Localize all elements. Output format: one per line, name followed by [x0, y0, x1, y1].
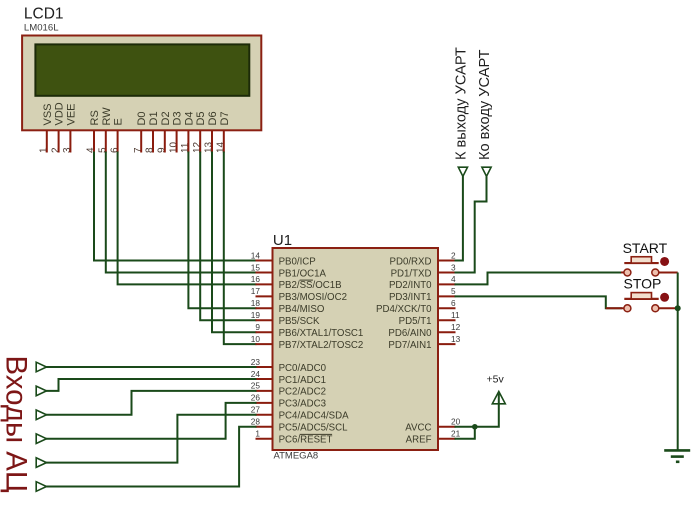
svg-text:16: 16 [251, 274, 261, 284]
svg-text:AVCC: AVCC [405, 423, 431, 434]
svg-text:PD7/AIN1: PD7/AIN1 [388, 340, 431, 351]
svg-text:11: 11 [180, 142, 191, 153]
svg-text:D5: D5 [195, 111, 207, 125]
svg-text:3: 3 [451, 262, 456, 272]
svg-text:4: 4 [86, 147, 97, 153]
svg-text:25: 25 [251, 381, 261, 391]
svg-text:10: 10 [251, 334, 261, 344]
svg-text:D7: D7 [219, 111, 231, 125]
svg-text:21: 21 [451, 429, 461, 439]
svg-text:VSS: VSS [42, 103, 54, 125]
svg-text:PC5/ADC5/SCL: PC5/ADC5/SCL [279, 423, 349, 434]
svg-text:PC0/ADC0: PC0/ADC0 [279, 363, 327, 374]
svg-text:5: 5 [98, 147, 109, 153]
svg-text:D1: D1 [148, 111, 160, 125]
svg-text:Ко входу УСАРТ: Ко входу УСАРТ [477, 49, 493, 160]
svg-text:RW: RW [101, 107, 113, 126]
svg-text:5: 5 [451, 286, 456, 296]
svg-text:27: 27 [251, 405, 261, 415]
svg-text:3: 3 [62, 147, 73, 153]
svg-text:+5v: +5v [487, 373, 505, 385]
svg-text:2: 2 [50, 147, 61, 153]
svg-text:26: 26 [251, 393, 261, 403]
svg-text:8: 8 [145, 147, 156, 153]
svg-text:PC1/ADC1: PC1/ADC1 [279, 375, 326, 386]
svg-text:PB4/MISO: PB4/MISO [279, 304, 325, 315]
svg-text:STOP: STOP [624, 276, 662, 292]
svg-text:18: 18 [251, 298, 261, 308]
svg-text:6: 6 [451, 298, 456, 308]
svg-text:PC6/RESET: PC6/RESET [279, 435, 333, 446]
svg-text:PD4/XCK/T0: PD4/XCK/T0 [376, 304, 432, 315]
svg-text:1: 1 [39, 147, 50, 153]
svg-text:Входы АЦ: Входы АЦ [0, 356, 32, 493]
svg-text:14: 14 [251, 250, 261, 260]
svg-text:U1: U1 [273, 232, 292, 249]
svg-text:RS: RS [89, 110, 101, 125]
svg-text:D2: D2 [160, 111, 172, 125]
svg-text:LCD1: LCD1 [24, 6, 64, 23]
svg-text:19: 19 [251, 310, 261, 320]
svg-text:PC4/ADC4/SDA: PC4/ADC4/SDA [279, 411, 350, 422]
svg-text:PB7/XTAL2/TOSC2: PB7/XTAL2/TOSC2 [279, 340, 364, 351]
svg-text:12: 12 [192, 141, 203, 153]
svg-text:PD3/INT1: PD3/INT1 [389, 292, 432, 303]
svg-text:28: 28 [251, 417, 261, 427]
svg-text:ATMEGA8: ATMEGA8 [274, 450, 319, 461]
svg-text:4: 4 [451, 274, 456, 284]
svg-text:PB5/SCK: PB5/SCK [279, 316, 320, 327]
svg-text:6: 6 [109, 147, 120, 153]
svg-text:10: 10 [168, 141, 179, 153]
svg-text:9: 9 [255, 322, 260, 332]
svg-text:13: 13 [204, 141, 215, 153]
svg-text:D6: D6 [207, 111, 219, 125]
svg-text:VEE: VEE [65, 103, 77, 125]
svg-text:PB6/XTAL1/TOSC1: PB6/XTAL1/TOSC1 [279, 328, 364, 339]
svg-text:PB2/SS/OC1B: PB2/SS/OC1B [279, 280, 342, 291]
svg-text:PB0/ICP: PB0/ICP [279, 256, 316, 267]
svg-text:17: 17 [251, 286, 261, 296]
svg-text:VDD: VDD [54, 102, 66, 125]
svg-text:23: 23 [251, 357, 261, 367]
svg-text:14: 14 [216, 141, 227, 153]
svg-text:1: 1 [255, 429, 260, 439]
svg-text:9: 9 [157, 147, 168, 153]
svg-text:D0: D0 [136, 111, 148, 125]
svg-text:24: 24 [251, 369, 261, 379]
svg-text:К выходу УСАРТ: К выходу УСАРТ [454, 47, 470, 160]
svg-text:11: 11 [451, 310, 460, 320]
svg-text:PD0/RXD: PD0/RXD [390, 256, 432, 267]
svg-text:20: 20 [451, 417, 461, 427]
svg-text:PC2/ADC2: PC2/ADC2 [279, 387, 326, 398]
svg-text:LM016L: LM016L [24, 23, 59, 34]
svg-text:PD5/T1: PD5/T1 [399, 316, 432, 327]
svg-text:PB3/MOSI/OC2: PB3/MOSI/OC2 [279, 292, 347, 303]
svg-text:START: START [623, 240, 668, 256]
svg-text:PD1/TXD: PD1/TXD [391, 268, 432, 279]
svg-text:15: 15 [251, 262, 261, 272]
svg-text:PD6/AIN0: PD6/AIN0 [388, 328, 432, 339]
svg-text:PB1/OC1A: PB1/OC1A [279, 268, 327, 279]
svg-text:12: 12 [451, 322, 461, 332]
svg-text:7: 7 [133, 147, 144, 153]
svg-text:PC3/ADC3: PC3/ADC3 [279, 399, 326, 410]
svg-text:PD2/INT0: PD2/INT0 [389, 280, 432, 291]
svg-text:AREF: AREF [406, 435, 432, 446]
svg-text:D3: D3 [172, 111, 184, 125]
svg-text:E: E [113, 118, 125, 125]
svg-text:D4: D4 [183, 111, 195, 125]
svg-text:13: 13 [451, 334, 461, 344]
svg-text:2: 2 [451, 250, 456, 260]
